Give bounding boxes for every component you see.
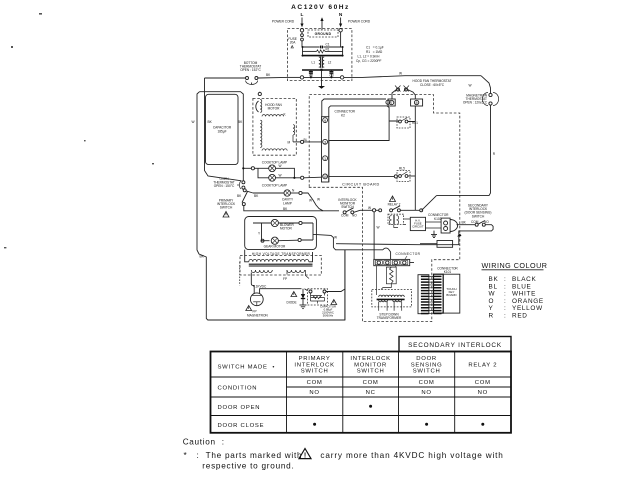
diode ground: [300, 305, 307, 309]
svg-text:M: M: [288, 141, 291, 145]
capacitor C3: [329, 70, 333, 77]
wire box to bottom row: [316, 235, 383, 250]
cooktop lamp parallel wires: [258, 168, 294, 178]
oven thermostat label: [213, 177, 235, 188]
svg-text::: :: [504, 298, 506, 305]
secondary interlock wires: [419, 225, 493, 245]
HV transformer core: [249, 264, 313, 266]
svg-text:LAMP: LAMP: [283, 201, 292, 205]
blower wires: [253, 223, 316, 241]
connector strip: [374, 259, 410, 265]
svg-text:DOOR OPEN: DOOR OPEN: [218, 405, 261, 411]
svg-text:20A: 20A: [290, 40, 297, 44]
junction dots: [302, 46, 344, 78]
wire to left corner: [205, 77, 246, 79]
wire diagonal to relay row: [422, 196, 437, 211]
svg-text:RELAY 2: RELAY 2: [468, 362, 497, 368]
stepdown transformer label: [377, 312, 402, 320]
filament leads: [287, 270, 309, 279]
magnetron warning triangle: [246, 306, 252, 311]
svg-text:OPEN : 152°C: OPEN : 152°C: [240, 68, 261, 72]
resistor R1 line: [303, 50, 343, 53]
HV transformer primary: [249, 259, 309, 261]
svg-text:NO: NO: [309, 390, 319, 396]
wire primary left: [245, 250, 313, 262]
fuse warning triangle: [291, 46, 293, 48]
svg-text:L: L: [301, 12, 304, 18]
touch key board comb right teeth: [434, 276, 442, 313]
fan motor winding loops main: [260, 120, 262, 147]
dot door open monitor: [369, 405, 372, 408]
wire BK left vertical: [205, 78, 242, 181]
hood fan thermostat label: [413, 79, 452, 87]
svg-text:K2: K2: [341, 113, 345, 117]
table door close row: [218, 423, 265, 429]
connector K2 strip: [322, 117, 329, 182]
svg-text:N: N: [339, 12, 343, 18]
svg-text:Caution :: Caution :: [183, 438, 225, 447]
wire switch down: [244, 206, 339, 211]
K2 top wire: [322, 99, 386, 117]
svg-text:W: W: [469, 84, 472, 88]
blower motor: [271, 219, 278, 226]
magnetron thermostat: [482, 93, 498, 106]
svg-text:DOOR CLOSE: DOOR CLOSE: [218, 423, 265, 429]
blower right terminal: [299, 221, 302, 224]
table column lines: [287, 352, 455, 433]
wire monitor to relay2: [354, 209, 382, 213]
svg-text:DIODE: DIODE: [287, 301, 297, 305]
svg-text:W: W: [317, 198, 320, 202]
choke L2: [323, 57, 325, 67]
svg-text:COM: COM: [363, 380, 379, 386]
HV transformer dashed box: [240, 256, 321, 276]
ground under K102: [431, 231, 437, 238]
ground arrow: [320, 17, 323, 29]
HV capacitor dashed box: [308, 289, 328, 305]
K2 terminal 10: [323, 174, 328, 179]
svg-text:DOOR: DOOR: [416, 356, 437, 362]
svg-text:7: 7: [391, 101, 393, 105]
svg-text:COM: COM: [341, 214, 349, 218]
svg-text:C1 = 0.1µF: C1 = 0.1µF: [366, 45, 384, 49]
scan speck: [4, 13, 154, 248]
svg-text:GEAR MOTOR: GEAR MOTOR: [264, 245, 286, 249]
table door open row: [218, 405, 261, 411]
touch terminal box: [437, 241, 453, 248]
fan motor bottom winding: [262, 149, 287, 151]
cooktop lamp branch wire: [242, 167, 269, 170]
svg-text:SECONDARY INTERLOCK: SECONDARY INTERLOCK: [408, 342, 502, 349]
wire hop to connector: [383, 248, 391, 259]
ground dashed box: [308, 30, 338, 37]
svg-text:!: !: [304, 453, 306, 460]
fuse symbol: [301, 32, 304, 47]
svg-text:SWITCH: SWITCH: [413, 369, 441, 375]
K2 terminal 1: [323, 156, 328, 161]
secondary interlock switch: [462, 220, 490, 226]
svg-text:L1: L1: [312, 61, 316, 65]
secondary interlock switch label: [465, 204, 492, 219]
connector K101 label: [437, 267, 458, 274]
HV capacitor label: [320, 305, 336, 318]
gear motor: [261, 237, 278, 244]
K2 terminal 9: [323, 118, 328, 123]
HV capacitor: [309, 290, 326, 304]
svg-text::: :: [504, 283, 506, 290]
bottom thermostat label: [240, 61, 262, 72]
svg-text:Cp, CG = 2200PF: Cp, CG = 2200PF: [356, 59, 381, 63]
bottom bus bar: [302, 69, 343, 71]
capacitor C2: [309, 70, 313, 77]
svg-text:COOKTOP LAMP: COOKTOP LAMP: [262, 160, 287, 164]
svg-text:ORANGE: ORANGE: [512, 298, 544, 305]
svg-text:POWER CORD: POWER CORD: [348, 20, 371, 24]
relay RL5 leads: [329, 175, 416, 178]
svg-text:R1 = 1MΩ: R1 = 1MΩ: [366, 50, 383, 54]
diode warning triangle: [291, 292, 297, 297]
svg-text:RELAY 2: RELAY 2: [388, 202, 401, 206]
wiring colour underline: [482, 269, 544, 271]
cooktop lamp 1: [269, 164, 282, 172]
svg-text:K101: K101: [444, 270, 452, 274]
touch key board box: [443, 274, 460, 313]
wire right loop vertical: [437, 105, 491, 196]
capacitor box label: [213, 126, 232, 134]
hood fan thermostat: [395, 86, 409, 92]
svg-text:L1, L2 = 0.9mH: L1, L2 = 0.9mH: [358, 54, 381, 58]
svg-text::: :: [504, 291, 506, 298]
connector K102: [441, 218, 458, 233]
svg-text:10: 10: [323, 175, 327, 179]
K2 terminal 3: [323, 139, 328, 144]
choke L1: [319, 57, 321, 67]
svg-text:W: W: [279, 174, 282, 178]
choke core: [321, 56, 323, 68]
bottom thermostat: [246, 77, 258, 85]
svg-text:W: W: [192, 120, 195, 124]
wire to touch connector: [410, 244, 437, 263]
blower gear motor box: [245, 217, 317, 250]
top bus bar: [302, 55, 343, 57]
cavity lamp wire: [246, 191, 284, 193]
hood fan thermostat leads: [392, 90, 415, 100]
wiring colour rows: [489, 276, 544, 320]
svg-text:BOARD: BOARD: [446, 293, 456, 297]
svg-text:W: W: [334, 236, 337, 240]
svg-text:COOKTOP LAMP: COOKTOP LAMP: [262, 184, 287, 188]
svg-text:3: 3: [324, 141, 326, 145]
N input arrow: [339, 18, 342, 28]
connector K102 label: [428, 213, 449, 221]
K2 board box: [329, 106, 389, 182]
wire coil to fusebox: [394, 219, 411, 228]
fan motor right coil: [293, 125, 295, 142]
svg-text:BLACK: BLACK: [512, 276, 536, 283]
primary interlock switch: [237, 189, 259, 206]
HV secondary winding: [251, 270, 272, 273]
terminal 7 box: [388, 99, 395, 106]
terminal 8 box: [411, 99, 423, 106]
svg-text:SWITCH: SWITCH: [357, 369, 385, 375]
svg-text:W: W: [309, 199, 312, 203]
table condition rows: [218, 380, 491, 396]
relay RL1 dashed box: [397, 117, 410, 128]
stepdown transformer dashed box: [372, 289, 412, 307]
connector strip pointer: [405, 256, 407, 259]
svg-text:PRIMARY: PRIMARY: [299, 356, 331, 362]
terminal L circle: [300, 29, 303, 32]
cavity lamp label: [282, 198, 294, 206]
interlock monitor switch: [341, 208, 357, 218]
svg-text:INTERLOCK: INTERLOCK: [294, 362, 334, 368]
diode: [301, 289, 305, 305]
hood fan motor dashed box: [253, 98, 296, 155]
svg-text:BL: BL: [304, 138, 308, 142]
svg-text:TRANSFORMER: TRANSFORMER: [377, 316, 402, 320]
svg-text:RED: RED: [512, 313, 528, 320]
svg-text:INTERLOCK: INTERLOCK: [350, 356, 390, 362]
svg-text:CLOSE : 60±5°C: CLOSE : 60±5°C: [420, 83, 445, 87]
svg-text:AC120V 60Hz: AC120V 60Hz: [291, 4, 350, 11]
svg-text:COM: COM: [307, 380, 323, 386]
svg-text:YELLOW: YELLOW: [512, 305, 543, 312]
wire bottom row: [336, 244, 419, 245]
svg-text:MONITOR: MONITOR: [354, 362, 387, 368]
svg-text:W: W: [377, 226, 380, 230]
svg-text:SWITCH: SWITCH: [220, 206, 233, 210]
svg-text:50/60Hz: 50/60Hz: [323, 314, 334, 318]
left leg L-side: [302, 47, 304, 56]
oven thermostat: [237, 181, 245, 189]
touch key board comb left teeth: [421, 276, 429, 313]
svg-text::: :: [504, 276, 506, 283]
svg-text::: :: [504, 305, 506, 312]
svg-text:SWITCH: SWITCH: [301, 369, 329, 375]
svg-text:MOTOR: MOTOR: [268, 106, 281, 110]
dots door close: [313, 423, 484, 426]
fan motor winding loops top: [260, 100, 262, 113]
svg-text:* : The parts marked with: * : The parts marked with: [184, 451, 303, 460]
primary interlock switch label: [217, 199, 236, 210]
interlock monitor switch label: [338, 198, 357, 209]
noise filter dashed box: [288, 29, 352, 81]
wire N drop: [340, 32, 342, 47]
svg-text:R: R: [489, 313, 494, 320]
svg-text:MOTOR: MOTOR: [280, 227, 293, 231]
svg-text:SWITCH: SWITCH: [472, 214, 485, 218]
fan motor horizontal winding: [262, 115, 284, 117]
HV secondary lead: [251, 273, 307, 294]
svg-text:RL5: RL5: [399, 166, 405, 170]
wire cap box to thermostat: [242, 164, 244, 181]
HV cap right lead: [326, 250, 345, 320]
svg-text:carry more than 4KVDC high vol: carry more than 4KVDC high voltage with: [320, 451, 503, 460]
svg-text:CONNECTOR: CONNECTOR: [396, 252, 421, 256]
svg-text:SENSING: SENSING: [411, 362, 443, 368]
svg-text:GROUND: GROUND: [315, 32, 332, 36]
wire terminal8 down: [414, 106, 416, 210]
table outer border: [211, 352, 512, 433]
svg-text:185µF: 185µF: [217, 130, 226, 134]
terminal 7b circle: [386, 100, 390, 104]
svg-text:W: W: [399, 71, 402, 75]
svg-text:L2: L2: [328, 61, 332, 65]
svg-text:CONDITION: CONDITION: [218, 386, 258, 392]
capacitor C1 line: [303, 46, 343, 49]
wire slope to magnetron thermostat: [481, 76, 491, 94]
terminal N circle: [339, 29, 342, 32]
touch key board ribbon: [429, 276, 434, 313]
relay 2 warning triangle: [390, 196, 396, 202]
table secondary interlock header box: [399, 337, 511, 352]
filter ground stem: [318, 70, 325, 89]
L input arrow: [300, 18, 303, 28]
magnetron label: [247, 310, 268, 318]
primary interlock warning triangle: [223, 212, 229, 218]
component values note: [356, 45, 384, 63]
svg-text:WIRING COLOUR: WIRING COLOUR: [482, 261, 548, 270]
relay RL1 leads: [389, 120, 415, 123]
svg-text:BLUE: BLUE: [512, 283, 532, 290]
fan motor winding arc: [256, 101, 259, 112]
wire left from filter: [258, 76, 286, 79]
right leg N-side: [342, 47, 344, 56]
svg-text:Y: Y: [489, 305, 494, 312]
svg-text::: :: [504, 313, 506, 320]
resistor box: [386, 267, 396, 284]
svg-text:W: W: [489, 291, 496, 298]
svg-text:O: O: [489, 298, 495, 305]
wire W outer left vertical: [197, 92, 345, 320]
circuit board dashed box: [309, 95, 460, 322]
svg-text:NO: NO: [421, 390, 431, 396]
svg-text:R1: R1: [325, 47, 329, 51]
svg-text:CIRCUIT: CIRCUIT: [412, 225, 424, 229]
stepdown transformer core: [377, 298, 405, 300]
svg-text:WHITE: WHITE: [512, 291, 536, 298]
fan motor output wire: [293, 140, 322, 143]
touch key board comb left box: [418, 275, 429, 314]
table row lines: [211, 377, 512, 416]
wire W top to right: [363, 76, 482, 78]
svg-text:C1: C1: [325, 43, 329, 47]
relay 2 contact: [390, 206, 423, 212]
svg-text:FP: FP: [283, 277, 287, 281]
connector K2 label: [335, 110, 356, 118]
table header cells: [218, 356, 498, 375]
gear motor right wire: [278, 238, 301, 241]
touch key board label: [446, 287, 456, 297]
filter output wire: [286, 76, 363, 79]
HV capacitor warning triangle: [331, 300, 337, 305]
svg-text:POWER CORD: POWER CORD: [272, 20, 295, 24]
cavity lamp wire right: [290, 191, 323, 210]
svg-text:CIRCUIT BOARD: CIRCUIT BOARD: [342, 182, 380, 186]
capacitor box top wire: [200, 92, 244, 164]
dashed lead line: [239, 262, 241, 286]
svg-text:BK: BK: [489, 276, 499, 283]
hood fan motor label: [265, 103, 282, 111]
wire lamps to connector: [293, 176, 321, 179]
svg-text:W: W: [368, 206, 371, 210]
svg-text:COM: COM: [475, 380, 491, 386]
magnetron thermostat label: [463, 93, 488, 104]
svg-text:OPEN : 150°C: OPEN : 150°C: [214, 184, 235, 188]
svg-text:COM: COM: [419, 380, 435, 386]
cavity lamp: [284, 189, 295, 197]
svg-text:BL: BL: [489, 283, 498, 290]
magnetron: [250, 293, 263, 306]
relay RL5 dashed box: [397, 171, 410, 182]
svg-text:4.1KVDC: 4.1KVDC: [253, 285, 267, 289]
HV fuse circuit box: [410, 217, 425, 230]
svg-text:NC: NC: [366, 390, 376, 396]
fan motor top terminal: [258, 92, 261, 96]
stepdown transformer pins: [379, 302, 402, 311]
svg-text:8: 8: [416, 101, 418, 105]
capacitor box: [206, 94, 239, 164]
cooktop lamp 2: [269, 174, 282, 182]
svg-text:W: W: [279, 164, 282, 168]
svg-text:K102: K102: [434, 217, 442, 221]
caution warning triangle: [299, 449, 311, 460]
junction arrow: [457, 234, 462, 237]
wire strip to transformer: [377, 266, 396, 295]
svg-text:NO: NO: [352, 214, 357, 218]
svg-text:CONNECTOR: CONNECTOR: [335, 110, 356, 114]
touch key board comb right box: [434, 274, 444, 313]
svg-text:SWITCH MADE •: SWITCH MADE •: [218, 365, 276, 371]
wire relay2 down: [373, 212, 375, 260]
HV filament winding: [287, 270, 305, 273]
relay 2 coil dashed box: [388, 214, 404, 224]
svg-text:NO: NO: [478, 390, 488, 396]
stepdown secondary windings: [379, 300, 402, 302]
stepdown transformer primary: [379, 295, 405, 297]
svg-text:1: 1: [324, 157, 326, 161]
svg-text:MAGNETRON: MAGNETRON: [247, 313, 268, 317]
svg-text:9: 9: [324, 119, 326, 123]
wire fusebox to K102: [426, 222, 442, 228]
blower motor label: [280, 223, 295, 231]
svg-text:respective to ground.: respective to ground.: [202, 461, 294, 470]
